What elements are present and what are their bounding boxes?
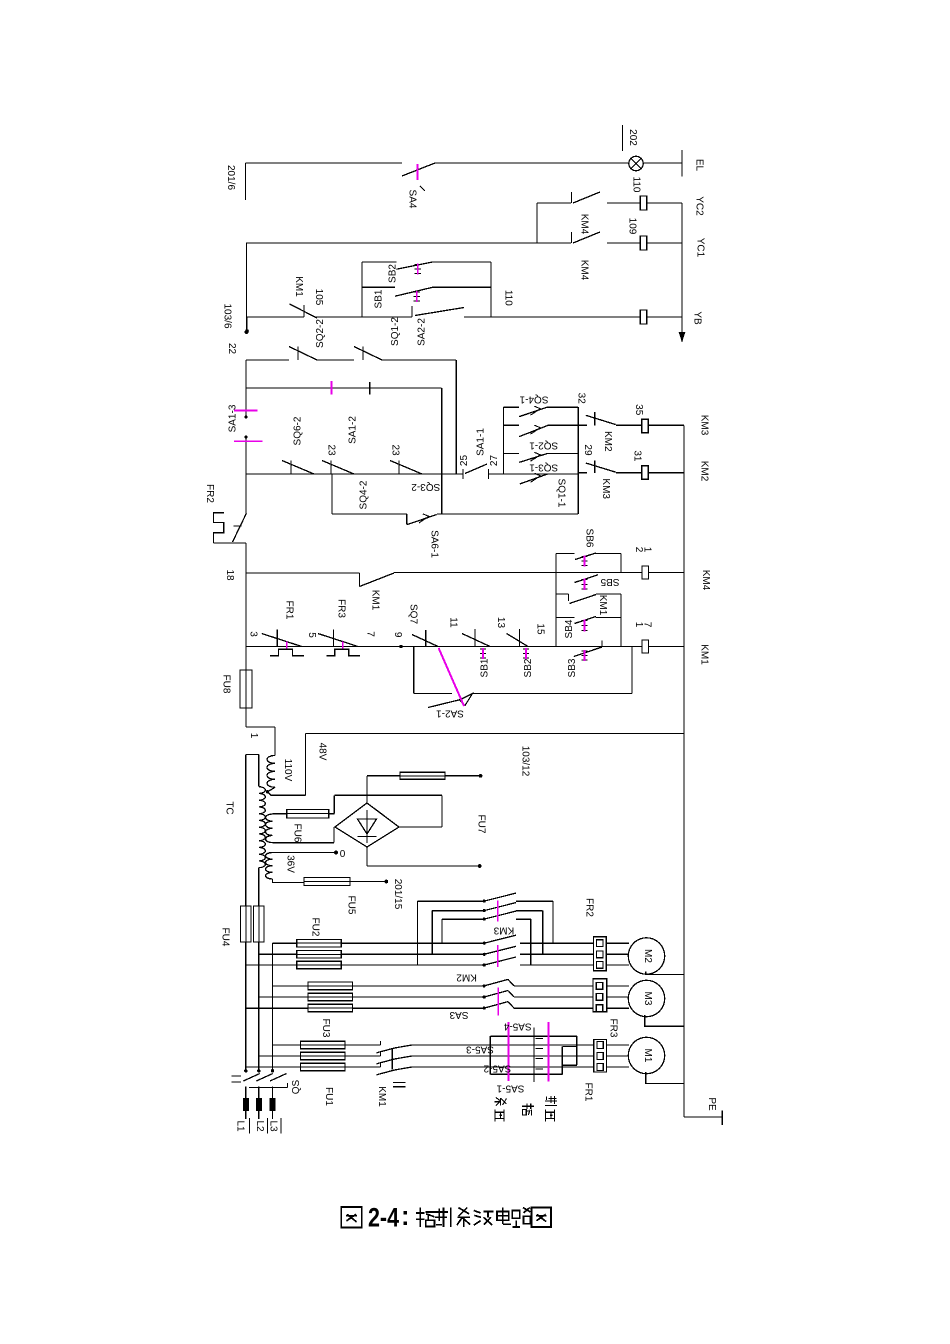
- svg-text:L2: L2: [254, 1120, 265, 1132]
- svg-text:KM1: KM1: [376, 1086, 387, 1107]
- svg-text:FU2: FU2: [310, 918, 321, 937]
- svg-text:M2: M2: [642, 949, 653, 963]
- svg-text:201/15: 201/15: [392, 879, 403, 910]
- svg-text:15: 15: [534, 623, 545, 635]
- svg-text:FU4: FU4: [220, 928, 231, 947]
- svg-text:SB6: SB6: [584, 529, 595, 548]
- svg-text:35: 35: [633, 404, 644, 416]
- svg-text:29: 29: [582, 444, 593, 456]
- svg-text:9: 9: [392, 632, 403, 638]
- svg-text:FR3: FR3: [336, 599, 347, 618]
- svg-text:0: 0: [340, 849, 346, 860]
- svg-text:KM3: KM3: [600, 478, 611, 499]
- svg-text:7: 7: [642, 622, 653, 628]
- svg-text:36V: 36V: [285, 855, 296, 873]
- svg-text:TC: TC: [224, 801, 235, 814]
- svg-text:SA1-3: SA1-3: [228, 404, 239, 432]
- svg-text:13: 13: [495, 617, 506, 629]
- svg-text:SB1: SB1: [480, 658, 491, 677]
- svg-text:SA5-3: SA5-3: [466, 1044, 494, 1055]
- svg-text:SQ2-2: SQ2-2: [315, 319, 326, 348]
- svg-text:KM4: KM4: [579, 260, 590, 281]
- svg-text:FR2: FR2: [204, 484, 215, 503]
- svg-text:25: 25: [459, 455, 470, 467]
- svg-text:FR2: FR2: [584, 898, 595, 917]
- svg-text:SA2-1: SA2-1: [436, 708, 464, 719]
- svg-text:1: 1: [248, 733, 259, 739]
- svg-text:18: 18: [224, 569, 235, 581]
- svg-text:FR1: FR1: [283, 601, 294, 620]
- svg-text:SB4: SB4: [564, 619, 575, 638]
- svg-text:5: 5: [306, 632, 317, 638]
- svg-text:27: 27: [489, 455, 500, 467]
- svg-text:KM2: KM2: [699, 461, 710, 482]
- svg-text:FU5: FU5: [346, 896, 357, 915]
- svg-text:KM1: KM1: [293, 276, 304, 297]
- svg-text:SA1-2: SA1-2: [348, 416, 359, 444]
- svg-text:110: 110: [631, 177, 642, 193]
- svg-text:SA3: SA3: [449, 1009, 468, 1020]
- svg-text:SA5-2: SA5-2: [483, 1063, 511, 1074]
- svg-text:SA1-1: SA1-1: [475, 428, 486, 456]
- svg-text:SQ6-2: SQ6-2: [293, 416, 304, 445]
- svg-text:22: 22: [226, 343, 237, 355]
- svg-text:QS: QS: [291, 1079, 302, 1094]
- svg-text:KM1: KM1: [699, 644, 710, 665]
- svg-text:YB: YB: [692, 311, 703, 325]
- svg-text:KM4: KM4: [700, 570, 711, 591]
- svg-text:YC1: YC1: [695, 238, 706, 258]
- svg-text:SB1: SB1: [374, 289, 385, 308]
- svg-text:KM4: KM4: [579, 214, 590, 235]
- svg-text:SQ1-1: SQ1-1: [555, 479, 566, 508]
- svg-text:FU6: FU6: [292, 824, 303, 843]
- svg-text:EL: EL: [694, 159, 705, 172]
- svg-text:SA5-4: SA5-4: [503, 1020, 531, 1031]
- svg-text:KM2: KM2: [456, 972, 477, 983]
- svg-text:23: 23: [390, 444, 401, 456]
- svg-text:103/6: 103/6: [222, 303, 233, 328]
- svg-text:SQ3-2: SQ3-2: [411, 481, 440, 492]
- svg-text:SB5: SB5: [600, 576, 619, 587]
- svg-text:7: 7: [365, 631, 376, 637]
- svg-text:11: 11: [448, 617, 459, 628]
- svg-text:201/6: 201/6: [225, 165, 236, 190]
- svg-text:1: 1: [642, 547, 653, 553]
- svg-text:202: 202: [627, 129, 638, 146]
- svg-text:SQ1-2: SQ1-2: [390, 317, 401, 346]
- svg-text:105: 105: [313, 289, 324, 306]
- svg-text:M3: M3: [642, 992, 653, 1006]
- svg-text:KM1: KM1: [370, 590, 381, 611]
- svg-text:FU8: FU8: [221, 675, 232, 694]
- svg-text:23: 23: [326, 444, 337, 456]
- svg-text:SB2: SB2: [523, 658, 534, 677]
- svg-text:109: 109: [627, 218, 638, 235]
- svg-text:KM3: KM3: [493, 925, 514, 936]
- svg-text:SQ4-1: SQ4-1: [519, 393, 548, 404]
- svg-text:FU7: FU7: [476, 815, 487, 834]
- svg-text:L1: L1: [235, 1120, 246, 1132]
- svg-text:31: 31: [631, 450, 642, 462]
- svg-text:M1: M1: [642, 1049, 653, 1063]
- svg-text:SQ2-1: SQ2-1: [529, 440, 558, 451]
- svg-text:KM1: KM1: [597, 595, 608, 616]
- svg-text:SQ4-2: SQ4-2: [359, 480, 370, 509]
- svg-text:2-4: 2-4: [368, 1203, 399, 1233]
- svg-text:SA4: SA4: [407, 190, 418, 209]
- svg-text:L3: L3: [268, 1120, 279, 1132]
- svg-text:110V: 110V: [282, 759, 293, 782]
- svg-text:FR1: FR1: [583, 1083, 594, 1102]
- svg-text:SA5-1: SA5-1: [496, 1083, 524, 1094]
- svg-text:SB2: SB2: [388, 264, 399, 283]
- svg-text:FU3: FU3: [320, 1019, 331, 1038]
- svg-text:PE: PE: [706, 1097, 717, 1111]
- svg-text:SQ3-1: SQ3-1: [529, 462, 558, 473]
- svg-text:3: 3: [248, 631, 259, 637]
- svg-text:110: 110: [503, 290, 514, 306]
- svg-text:103/12: 103/12: [520, 746, 531, 777]
- svg-text:32: 32: [575, 393, 586, 405]
- svg-text:48V: 48V: [317, 743, 328, 761]
- svg-text:KM2: KM2: [602, 431, 613, 452]
- svg-text:FR3: FR3: [608, 1019, 619, 1038]
- svg-text:SA2-2: SA2-2: [417, 318, 428, 346]
- svg-text:FU1: FU1: [323, 1087, 334, 1106]
- svg-text:SB3: SB3: [567, 658, 578, 677]
- svg-text:YC2: YC2: [694, 196, 705, 216]
- svg-text:SA6-1: SA6-1: [429, 530, 440, 558]
- svg-text:SQ7: SQ7: [407, 604, 418, 624]
- svg-text:KM3: KM3: [699, 415, 710, 436]
